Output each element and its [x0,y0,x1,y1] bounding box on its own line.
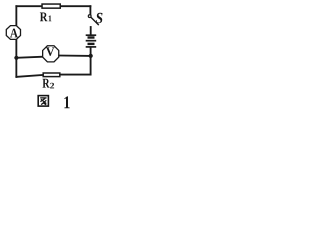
wire battery bottom stub [90,48,92,75]
battery plate short 2 [88,43,95,45]
junction node left [14,56,18,60]
junction node right [89,54,93,58]
wire battery top stub [90,27,92,35]
wire bottom left [16,75,42,77]
wire top-left [16,5,41,7]
label R1 [40,12,48,21]
wire bottom right [61,74,91,76]
wire top-right [61,5,90,7]
battery plate long 3 [86,46,97,48]
voltmeter V body [43,46,59,62]
label A [10,29,18,38]
battery plate long 2 [86,40,97,42]
wire left rail upper [15,6,17,25]
wire left rail lower [15,40,17,77]
ammeter A body [6,26,20,40]
caption numeral 1 [64,96,69,108]
wire voltmeter right [59,55,90,57]
resistor R2 [43,73,60,77]
resistor R1 [42,4,60,8]
wire voltmeter left [16,57,42,58]
battery plate short 1 [88,36,95,38]
switch S lever [91,17,98,24]
caption CJK tu character [38,96,48,107]
label R2 [42,79,49,88]
label S [96,13,103,24]
wire right rail upper [89,6,91,14]
battery plate long 1 [86,34,97,36]
label V [46,47,55,55]
switch S pivot [88,15,91,18]
